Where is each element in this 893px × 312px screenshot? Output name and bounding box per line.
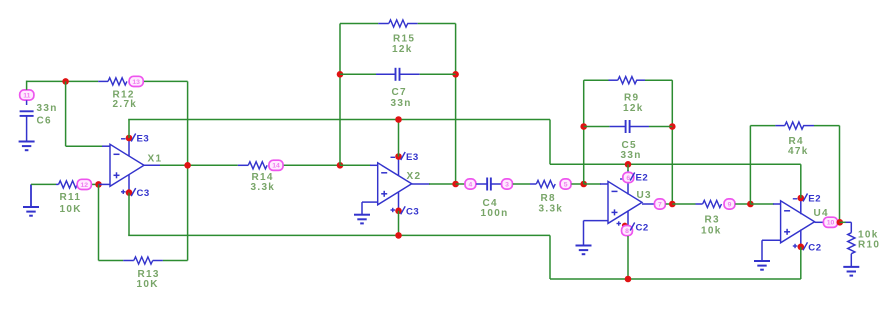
svg-text:C6: C6 [37,116,52,127]
capacitor C4 [476,183,487,185]
wire [600,183,608,185]
svg-text:C3: C3 [137,188,150,199]
node 10 [823,217,837,227]
capacitor C7 [376,73,395,75]
U3 output wire [642,203,654,205]
wire [66,145,103,147]
junction [395,116,402,123]
resistor R9 [609,79,618,81]
wire [649,126,672,128]
U4 output wire [815,221,823,223]
svg-text:R15: R15 [393,34,415,45]
svg-text:4: 4 [469,181,473,188]
node 6 [623,172,634,182]
svg-text:C2: C2 [636,223,649,234]
node 11 [20,90,34,100]
svg-text:33n: 33n [621,150,642,161]
junction [337,71,344,78]
capacitor C5 [610,126,626,128]
junction [580,181,587,188]
wire [27,80,66,82]
wire [92,183,98,185]
wire E3 bus [128,120,130,139]
svg-text:8: 8 [625,228,629,235]
resistor R14 [238,164,248,166]
wire [814,125,840,127]
E2 pin label [803,194,808,202]
junction [669,123,676,130]
wire [584,126,610,128]
op-amp X2 [378,163,412,205]
C2 pin label [630,223,635,231]
svg-text:C2: C2 [808,242,821,253]
node 4 [465,179,476,189]
wire [666,203,673,205]
svg-text:E2: E2 [808,194,821,205]
svg-text:9: 9 [728,201,732,208]
wire [735,203,750,205]
C2 pin label [803,242,808,250]
svg-text:C3: C3 [406,206,419,217]
wire [672,203,695,205]
svg-text:33n: 33n [391,98,412,109]
X1 power pin C3 [128,175,130,193]
svg-text:X2: X2 [407,171,422,182]
junction [580,123,587,130]
wire [102,145,110,147]
junction [837,219,844,226]
E2 pin label [630,173,635,181]
wire [398,120,400,157]
wire [66,80,99,82]
wire [839,126,841,223]
op-amp U3 [608,181,642,223]
resistor R3 [696,203,703,205]
wire E2 bus [550,163,801,165]
wire [584,183,601,185]
capacitor C6 [26,100,28,105]
svg-text:10: 10 [827,220,835,227]
wire [750,203,774,205]
svg-text:E3: E3 [406,152,419,163]
wire [398,211,400,236]
svg-text:10K: 10K [60,204,82,215]
node 5 [560,179,571,189]
resistor R11 [56,183,59,185]
wire [584,79,609,81]
X2 ground [362,201,378,203]
op-amp X1 [110,144,144,186]
wire [187,165,189,260]
wire [26,81,28,90]
wire [513,183,530,185]
svg-text:13: 13 [132,79,140,86]
svg-text:33n: 33n [37,103,58,114]
svg-text:12k: 12k [392,44,413,55]
node 7 [654,199,665,209]
node 8 [622,226,633,236]
junction [669,201,676,208]
svg-text:7: 7 [658,201,662,208]
junction [337,162,344,169]
node 3 [502,179,513,189]
wire [340,23,378,25]
wire [65,81,67,146]
junction [625,276,632,283]
wire [455,24,457,185]
wire [418,23,456,25]
svg-text:14: 14 [272,163,280,170]
resistor R8 [530,183,536,185]
svg-text:11: 11 [23,92,30,99]
node 14 [269,160,283,170]
wire [840,221,841,223]
junction [452,181,459,188]
svg-text:12k: 12k [623,103,644,114]
junction [625,161,632,168]
svg-text:2.7k: 2.7k [113,99,138,110]
wire [98,184,100,260]
resistor R10 [846,221,852,223]
wire [99,260,124,262]
wire [750,125,775,127]
C3 pin label [401,206,406,214]
wire [773,203,781,205]
wire [583,80,585,184]
wire [340,164,371,166]
svg-text:R8: R8 [541,193,556,204]
resistor R15 [378,23,389,25]
U3 power pin C2 [627,211,629,229]
node 9 [724,199,735,209]
ground [19,141,35,143]
svg-text:R11: R11 [60,192,82,203]
E3 pin label [131,134,136,142]
svg-text:C7: C7 [392,87,407,98]
wire [163,260,188,262]
wire [284,164,340,166]
U3 power pin E2 [627,170,629,195]
resistor R13 [123,260,134,262]
svg-text:R10: R10 [858,240,880,251]
svg-text:12: 12 [81,182,89,189]
wire [571,183,583,185]
wire [749,126,751,204]
ground [843,266,859,268]
svg-text:3: 3 [505,181,509,188]
wire [99,183,111,185]
junction [452,71,459,78]
svg-text:47k: 47k [788,146,809,157]
X2 power pin E3 [398,157,400,177]
C3 pin label [131,188,136,196]
wire [456,183,465,185]
wire [627,236,629,279]
wire [549,235,551,279]
svg-text:100n: 100n [481,208,509,219]
junction [95,181,102,188]
svg-text:10k: 10k [701,226,722,237]
wire [420,73,456,75]
wire [187,81,189,165]
junction [62,78,69,85]
svg-text:5: 5 [564,181,568,188]
U4 power pin C2 [800,230,802,247]
svg-text:E2: E2 [636,173,649,184]
X2 output wire [412,183,430,185]
svg-text:X1: X1 [148,154,163,165]
wire C2 bus [550,278,801,280]
svg-text:6: 6 [626,175,630,182]
ground [30,184,32,206]
junction [184,162,191,169]
node 12 [77,179,91,189]
resistor R12 [98,80,108,82]
svg-text:3.3k: 3.3k [539,204,564,215]
wire [370,164,378,166]
wire [549,120,551,165]
svg-text:R9: R9 [624,93,639,104]
svg-text:E3: E3 [137,134,150,145]
wire [627,164,629,171]
wire C3 bus [128,193,130,236]
resistor R4 [775,125,784,127]
wire [841,221,846,223]
op-amp U4 [781,201,815,243]
wire [340,73,376,75]
svg-text:10K: 10K [137,279,159,290]
U4 ground [762,239,781,241]
X2 power pin C3 [398,192,400,211]
U3 ground [584,220,609,222]
junction [395,232,402,239]
node 13 [129,76,143,86]
svg-text:U3: U3 [637,190,652,201]
junction [747,201,754,208]
wire [31,183,56,185]
svg-text:R3: R3 [705,215,720,226]
wire [800,247,802,279]
wire [671,80,673,204]
wire [144,80,188,82]
U4 power pin E2 [800,198,802,214]
X1 power pin E3 [128,138,130,156]
wire [800,164,802,198]
wire [645,79,672,81]
E3 pin label [401,152,406,160]
X1 output wire [144,164,161,166]
wire [339,24,341,166]
svg-text:3.3k: 3.3k [251,182,276,193]
